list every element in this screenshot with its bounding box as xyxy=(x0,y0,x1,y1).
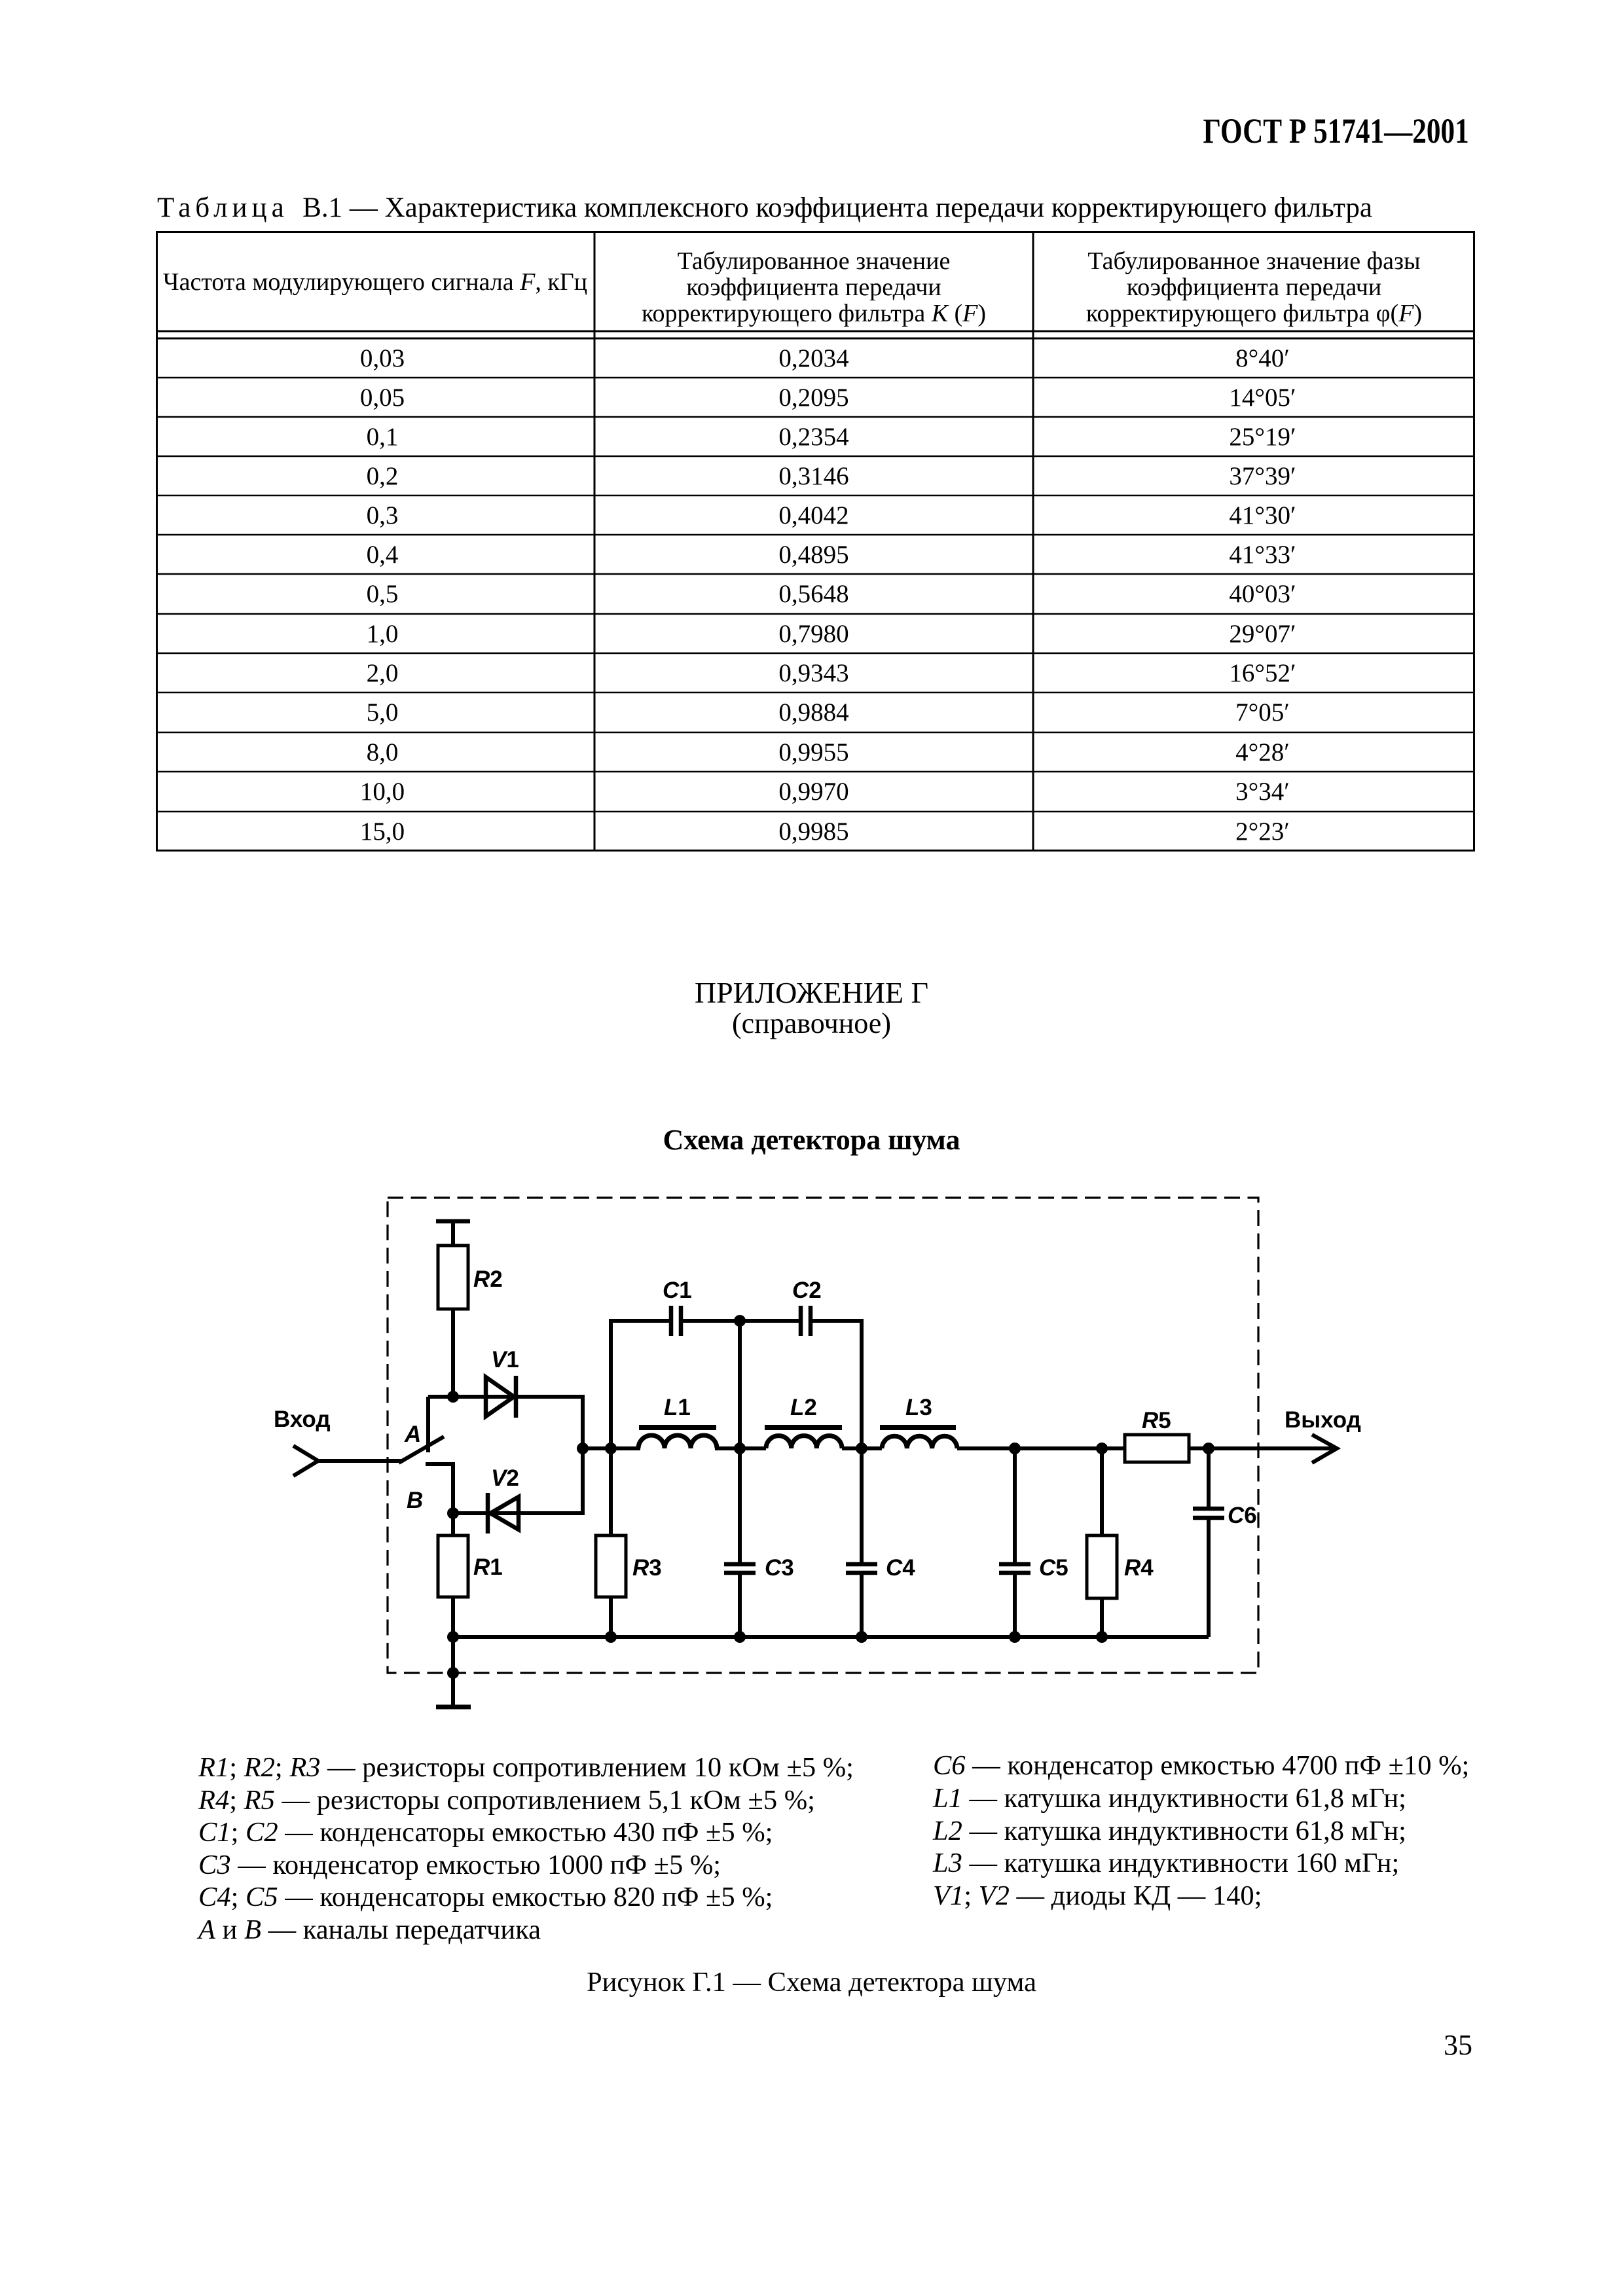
inductor L3 xyxy=(882,1436,957,1448)
wire rail to ground xyxy=(451,1637,455,1705)
bottom rail wire xyxy=(453,1635,1209,1639)
svg-text:L3: L3 xyxy=(905,1395,932,1420)
svg-text:C4: C4 xyxy=(886,1555,915,1581)
capacitor C5 plates xyxy=(999,1564,1030,1573)
contact A vertical wire xyxy=(426,1397,430,1452)
wire C1 to top junction xyxy=(683,1319,740,1323)
capacitor C1 plates xyxy=(671,1306,681,1336)
junction dot R5/C6 xyxy=(1203,1443,1214,1454)
svg-text:C3: C3 xyxy=(765,1555,794,1581)
wire V1 to main junction xyxy=(515,1397,583,1448)
wire main line segment 4 xyxy=(957,1446,1125,1450)
wire terminal to R2 xyxy=(451,1221,455,1246)
figure title xyxy=(0,1123,1623,1157)
C3 riser wire xyxy=(738,1321,742,1448)
resistor R5 xyxy=(1125,1435,1189,1462)
wire main line segment 2 xyxy=(715,1446,766,1450)
wire C4 to bottom rail xyxy=(860,1575,864,1637)
wire C6 below main xyxy=(1207,1448,1211,1509)
wire R1 to bottom rail xyxy=(451,1597,455,1637)
wire V2 to main junction xyxy=(519,1448,583,1513)
wire top junction to C2 xyxy=(740,1319,799,1323)
svg-text:L1: L1 xyxy=(664,1395,691,1420)
wire C3 below main xyxy=(738,1448,742,1562)
wire R3 below main xyxy=(609,1448,613,1535)
wire R2 to V1 junction xyxy=(451,1309,455,1397)
diode V1 cathode bar xyxy=(514,1376,519,1418)
wire C3 to bottom rail xyxy=(738,1575,742,1637)
wire C4 below main xyxy=(860,1448,864,1562)
schematic enclosure dashed box xyxy=(388,1198,1258,1673)
inductor L1 xyxy=(638,1435,717,1448)
resistor R4 xyxy=(1087,1535,1117,1598)
capacitor C6 plates xyxy=(1193,1509,1224,1518)
component legend left column xyxy=(198,1751,854,1946)
table B.1 title xyxy=(157,192,1372,224)
label L3 overline xyxy=(880,1425,956,1430)
svg-text:V1: V1 xyxy=(491,1347,519,1372)
component legend right column xyxy=(933,1749,1469,1912)
junction dot main/C4 xyxy=(856,1443,867,1454)
resistor R1 xyxy=(438,1535,468,1597)
wire C6 to bottom rail corner xyxy=(1207,1520,1211,1637)
junction dot R3/bottom rail xyxy=(605,1631,617,1643)
junction dot main/R4 xyxy=(1096,1443,1108,1454)
svg-text:C5: C5 xyxy=(1039,1555,1068,1581)
svg-text:R5: R5 xyxy=(1142,1408,1171,1433)
svg-text:R2: R2 xyxy=(473,1266,503,1292)
wire R4 to bottom rail xyxy=(1100,1598,1104,1637)
resistor R3 xyxy=(596,1535,626,1597)
diode V1 triangle xyxy=(486,1377,514,1416)
svg-text:R3: R3 xyxy=(632,1555,662,1581)
junction dot B/V2/R1 xyxy=(447,1507,459,1519)
label L1 overline xyxy=(639,1425,716,1430)
page header ГОСТ Р 51741-2001 xyxy=(1203,111,1469,151)
wire C5 to bottom rail xyxy=(1013,1575,1017,1637)
diode V2 cathode bar xyxy=(486,1493,490,1534)
wire main line segment 3 xyxy=(842,1446,882,1450)
wire R1 junction down xyxy=(451,1513,455,1535)
wire R5 to output xyxy=(1189,1446,1334,1450)
inductor L2 xyxy=(766,1436,842,1448)
figure caption xyxy=(0,1966,1623,1998)
svg-text:B: B xyxy=(407,1488,423,1513)
label L2 overline xyxy=(765,1425,842,1430)
page number xyxy=(1444,2028,1472,2062)
contact B wire xyxy=(426,1464,453,1513)
capacitor C4 plates xyxy=(846,1564,877,1573)
junction dot R4/bottom rail xyxy=(1096,1631,1108,1643)
table header row xyxy=(156,231,594,331)
wire R4 below main xyxy=(1100,1448,1104,1535)
wire R3 to bottom rail xyxy=(609,1597,613,1637)
R2 top terminal bar xyxy=(436,1219,470,1224)
wire contact A to diode V1 xyxy=(428,1395,516,1399)
junction dot on dashed border xyxy=(447,1667,459,1679)
junction dot C1/C2 top xyxy=(734,1315,746,1327)
output arrowhead xyxy=(1312,1435,1337,1463)
table data cells xyxy=(156,338,594,378)
svg-text:C2: C2 xyxy=(792,1278,822,1303)
wire B junction to diode V2 xyxy=(453,1511,519,1515)
svg-text:L2: L2 xyxy=(790,1395,817,1420)
wire C5 below main xyxy=(1013,1448,1017,1562)
junction dot main/C5 xyxy=(1009,1443,1021,1454)
C1 riser wire xyxy=(611,1321,669,1448)
junction dot main/C3 xyxy=(734,1443,746,1454)
junction dot R2/V1 xyxy=(447,1391,459,1403)
wire C2 to right riser xyxy=(812,1321,862,1448)
junction dot C3/bottom rail xyxy=(734,1631,746,1643)
junction dot R1/bottom rail xyxy=(447,1631,459,1643)
svg-text:Выход: Выход xyxy=(1285,1407,1361,1433)
junction dot R3/C1 riser xyxy=(605,1443,617,1454)
svg-text:Вход: Вход xyxy=(274,1407,331,1432)
capacitor C3 plates xyxy=(724,1564,756,1573)
appendix heading xyxy=(0,975,1623,1010)
junction dot diodes to main line xyxy=(577,1443,589,1454)
junction dot C5/bottom rail xyxy=(1009,1631,1021,1643)
svg-text:C6: C6 xyxy=(1228,1503,1257,1528)
wire main line segment 1 xyxy=(583,1446,640,1450)
capacitor C2 plates xyxy=(801,1306,811,1336)
switch blade A-B xyxy=(399,1437,444,1463)
junction dot C4/bottom rail xyxy=(856,1631,867,1643)
svg-text:V2: V2 xyxy=(491,1465,519,1491)
svg-text:R1: R1 xyxy=(473,1554,503,1580)
resistor R2 xyxy=(438,1246,468,1309)
wire input to switch pivot xyxy=(318,1459,403,1463)
input terminal chevron xyxy=(293,1446,318,1476)
ground bar xyxy=(436,1705,471,1710)
diode V2 triangle xyxy=(490,1497,519,1530)
svg-text:A: A xyxy=(404,1422,421,1447)
svg-text:R4: R4 xyxy=(1124,1555,1154,1581)
svg-text:C1: C1 xyxy=(663,1278,692,1303)
